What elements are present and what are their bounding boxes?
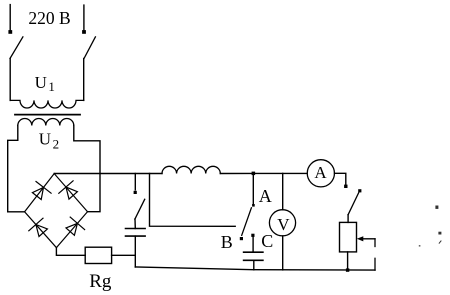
ammeter PA1: [307, 160, 334, 187]
wire: blade to capacitor C1: [134, 219, 136, 228]
diode VD3 lower-left: [29, 218, 48, 236]
svg-text:U: U: [35, 73, 47, 92]
wire: switch to rheostat: [347, 215, 349, 223]
wire: node A lead down: [252, 174, 255, 207]
node A junction dot on top rail: [252, 172, 256, 176]
wire: main positive rail (top wire): [54, 172, 307, 174]
node: right switch lower contact dot: [344, 185, 347, 188]
diode VD2 upper-right: [59, 181, 78, 199]
label U2 (secondary winding): [39, 129, 59, 151]
node C contact dot: [251, 234, 254, 237]
voltmeter PV1: [269, 210, 295, 236]
svg-text:220 В: 220 В: [28, 8, 70, 28]
bridge edge left-bottom: [25, 212, 57, 248]
wire: inductor bypass branch to B: [150, 174, 236, 227]
wire: bridge bottom stub: [56, 248, 85, 256]
label: 220 V mains voltage: [28, 8, 70, 28]
switch S4 blade (A to B/C selector): [242, 208, 252, 236]
wire: capacitor C1 to bottom rail: [134, 236, 136, 267]
transformer T1 core: [15, 114, 80, 116]
wire: right mains lead down: [83, 59, 85, 101]
wire: ammeter output to switch: [335, 173, 346, 184]
bridge edge left-top: [25, 174, 55, 212]
transformer T1 secondary winding: [18, 118, 74, 125]
bridge edge top-right: [54, 174, 87, 212]
switch S3 blade (filter capacitor): [135, 199, 145, 219]
wire: filter capacitor stub from top rail: [134, 174, 136, 190]
switch S2 blade (right mains): [84, 37, 95, 59]
wire: rheostat bottom lead: [347, 252, 349, 270]
resistor Rg: [85, 247, 111, 263]
label U1 (primary winding): [35, 73, 55, 94]
node: rheostat bottom junction dot: [346, 268, 349, 271]
diode VD1 upper-left: [32, 182, 51, 200]
wire: voltmeter bottom lead: [282, 236, 284, 270]
wire: wiper return lower segment: [374, 258, 376, 270]
svg-text:B: B: [221, 232, 233, 252]
node B contact dot: [240, 237, 243, 240]
diode VD4 lower-right: [66, 217, 85, 235]
svg-text:Rg: Rg: [89, 271, 112, 292]
svg-text:1: 1: [48, 79, 55, 94]
svg-text:A: A: [259, 186, 272, 206]
capacitor C1 top plate: [126, 228, 146, 230]
wire: capacitor C2 to bottom rail: [253, 260, 255, 270]
node: right mains terminal: [82, 5, 86, 34]
switch S5 blade (load): [348, 193, 359, 215]
svg-text:C: C: [261, 231, 273, 251]
svg-text:U: U: [39, 129, 51, 148]
label B: [221, 232, 233, 252]
node: left mains terminal: [8, 5, 12, 34]
svg-text:V: V: [277, 215, 290, 234]
node: filter switch contact dot: [134, 191, 137, 194]
speck artifact 1: [435, 206, 438, 209]
speck artifact 2: [438, 232, 441, 235]
capacitor C2 bottom plate: [244, 259, 263, 261]
label Rg: [89, 271, 112, 292]
svg-text:2: 2: [53, 136, 60, 151]
rheostat R1 body: [340, 222, 357, 252]
wire: bottom rail: [135, 267, 375, 270]
inductor L1: [162, 166, 220, 173]
speck artifact 3: [439, 241, 441, 243]
wire: wiper return upper segment: [374, 239, 376, 247]
label A: [259, 186, 272, 206]
node: right switch blade tip dot: [358, 189, 361, 192]
wire: left mains lead down: [9, 59, 11, 101]
wire: voltmeter top lead: [282, 173, 284, 209]
bridge edge bottom-right: [56, 212, 87, 248]
wire: Rg to filter node: [112, 254, 136, 256]
rheostat R1 wiper arrow: [357, 236, 375, 241]
speck artifact 4: [419, 245, 421, 247]
transformer T1 primary winding: [10, 100, 84, 108]
svg-text:A: A: [314, 163, 327, 182]
wire: secondary left lead to bridge: [8, 126, 25, 212]
capacitor C1 bottom plate: [126, 235, 146, 237]
capacitor C2 top plate: [244, 251, 263, 253]
switch S1 blade (left mains): [10, 37, 23, 59]
wire: secondary right lead to bridge: [74, 126, 100, 212]
wire: C contact to capacitor C2: [252, 237, 254, 252]
label C: [261, 231, 273, 251]
